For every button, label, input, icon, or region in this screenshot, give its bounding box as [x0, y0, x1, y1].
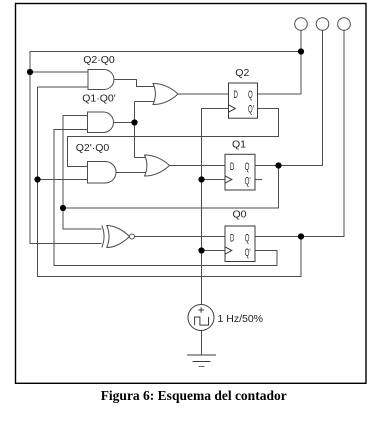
svg-text:Q: Q: [245, 160, 250, 172]
ground bar 2: [193, 361, 211, 363]
wire AND2 top input from rail x63, down to XNOR top input: [63, 116, 102, 230]
svg-text:Q2·Q0: Q2·Q0: [83, 54, 115, 66]
wire clock rail: [202, 109, 229, 305]
wire AND1 output to OR1 top input: [114, 80, 156, 87]
flip-flop U0 clock triangle: [225, 247, 232, 254]
wire AND3 output to OR2 bottom input: [116, 172, 148, 174]
wire left rail x30 down to XNOR bottom input: [30, 72, 102, 244]
wire OR2 output to Q1 D: [170, 165, 226, 167]
wire vertical x134.5 OR1 bottom to OR2 top: [134, 102, 136, 158]
wire rail x37.5 down, bottom run to column1, up to Q0 row: [38, 87, 302, 277]
junction node clock at Q1: [198, 176, 204, 182]
wire AND3 bottom input from rail x37.5: [38, 179, 88, 181]
svg-text:Q2'·Q0: Q2'·Q0: [76, 142, 110, 154]
wire AND1 bottom input: [38, 86, 89, 88]
junction node at left rail top: [27, 69, 33, 75]
svg-text:D: D: [230, 232, 234, 244]
and-gate AND3 Q2'.Q0: [88, 162, 117, 184]
svg-text:Q: Q: [245, 232, 250, 244]
svg-text:Q': Q': [245, 246, 251, 258]
output pin circle 1: [295, 18, 308, 31]
svg-text:D: D: [230, 160, 234, 172]
svg-text:Q2: Q2: [235, 67, 249, 79]
or-gate OR1: [153, 84, 178, 105]
output pin circle 2: [316, 18, 329, 31]
wire Q2.Q output to output column 1: [258, 30, 302, 94]
svg-text:Q0: Q0: [232, 209, 246, 221]
wire OR1 bottom input: [135, 101, 157, 103]
output pin circle 3: [338, 18, 351, 31]
wire Q1.Q branch down to rail x63: [63, 166, 279, 209]
junction node Q1.Q: [275, 162, 281, 168]
junction node column1 top: [298, 48, 304, 54]
or-gate OR2: [145, 155, 170, 176]
flip-flop U1 clock triangle: [225, 176, 232, 183]
wire XNOR output to Q0 D: [135, 236, 226, 238]
svg-text:Q': Q': [248, 103, 254, 115]
wire Q2 Qbar return to AND3 top input: [68, 109, 279, 167]
ground bar 1: [187, 354, 216, 356]
wire Q0 clock branch: [202, 250, 226, 252]
xnor-gate output bubble: [130, 234, 135, 239]
wire AND2 bottom input, Q0 Qbar feedback loop: [54, 130, 277, 266]
wire Q0.Q output to output column 3: [255, 30, 344, 236]
xnor-gate body: [107, 226, 130, 248]
junction node clock at Q0: [198, 247, 204, 253]
wire top feedback from node at column1 to left rail: [30, 52, 301, 73]
wire Q1 Qbar stub: [255, 179, 262, 181]
junction node column1 Q0 row: [298, 233, 304, 239]
junction node rail x37.5 / AND3 input: [34, 176, 40, 182]
wire OR1 output to Q2 D: [178, 93, 229, 95]
svg-text:1 Hz/50%: 1 Hz/50%: [218, 313, 264, 325]
wire AND1 top input: [30, 71, 88, 73]
ground bar 3: [199, 366, 205, 368]
clock source square wave glyph: [195, 317, 209, 325]
wire AND2 output: [114, 122, 135, 124]
junction node rail x63 / Q1.Q: [60, 205, 66, 211]
flip-flop U2 box Q2: [229, 83, 258, 118]
wire Q1.Q output to output column 2: [255, 30, 323, 165]
svg-text:Figura 6: Esquema del contador: Figura 6: Esquema del contador: [101, 388, 287, 403]
wire OR2 top input: [135, 157, 148, 159]
flip-flop U0 box Q0: [225, 226, 255, 262]
xnor-gate back curve: [102, 226, 104, 248]
flip-flop U1 box Q1: [225, 154, 255, 190]
wire clock source to ground: [201, 331, 203, 356]
flip-flop U2 clock triangle: [229, 105, 236, 112]
and-gate AND2 Q1.Q0': [88, 112, 114, 133]
svg-text:Q1: Q1: [232, 139, 246, 151]
svg-text:Q': Q': [245, 174, 251, 186]
clock source V1 circle: [188, 305, 214, 331]
clock source plus sign: [198, 307, 204, 313]
junction node AND2 output: [131, 119, 137, 125]
svg-text:D: D: [234, 88, 238, 100]
wire Q1 clock branch: [202, 179, 226, 181]
svg-text:Q1·Q0': Q1·Q0': [82, 93, 116, 105]
and-gate AND1 Q2.Q0: [88, 70, 114, 90]
svg-text:Q: Q: [248, 88, 253, 100]
